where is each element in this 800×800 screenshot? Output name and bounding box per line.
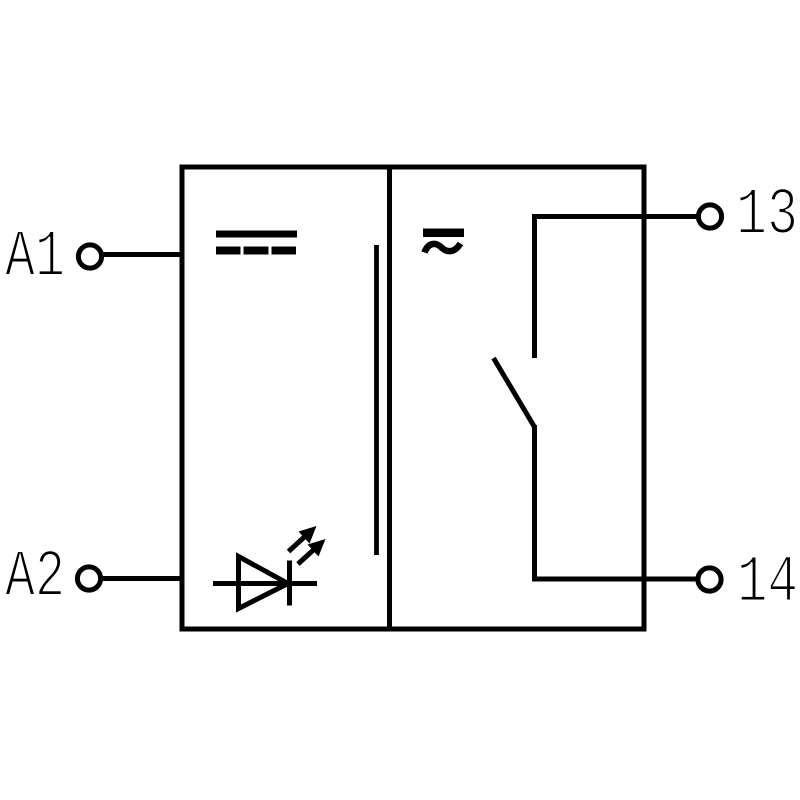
terminal circle A2 xyxy=(77,567,100,590)
divider between input and output sections xyxy=(387,167,392,629)
terminal circle 14 xyxy=(698,568,721,591)
LED anode lead wire xyxy=(213,581,317,586)
LED D1 xyxy=(213,526,326,609)
svg-text:A1: A1 xyxy=(5,220,65,296)
switch contact blade (NO) xyxy=(494,358,535,427)
terminal circle 13 xyxy=(698,205,721,228)
svg-text:A2: A2 xyxy=(5,540,65,616)
wire A2 to box xyxy=(100,576,182,581)
DC symbol (solid bar over dashed bar) xyxy=(216,231,297,255)
wire from switch to terminal 13 xyxy=(535,217,698,359)
LED light arrow 2 xyxy=(298,539,326,564)
AC/DC symbol (bar over tilde) xyxy=(423,229,464,253)
svg-text:14: 14 xyxy=(737,546,798,622)
wire A1 to box xyxy=(101,252,182,257)
LED triangle xyxy=(239,557,289,609)
terminal circle A1 xyxy=(78,245,101,268)
svg-text:13: 13 xyxy=(736,178,798,254)
LED light arrow 1 xyxy=(289,526,317,552)
LED cathode bar xyxy=(287,561,292,606)
isolation barrier line xyxy=(374,245,379,555)
relay body outline K1 xyxy=(182,167,644,629)
wire from switch to terminal 14 xyxy=(535,425,698,579)
